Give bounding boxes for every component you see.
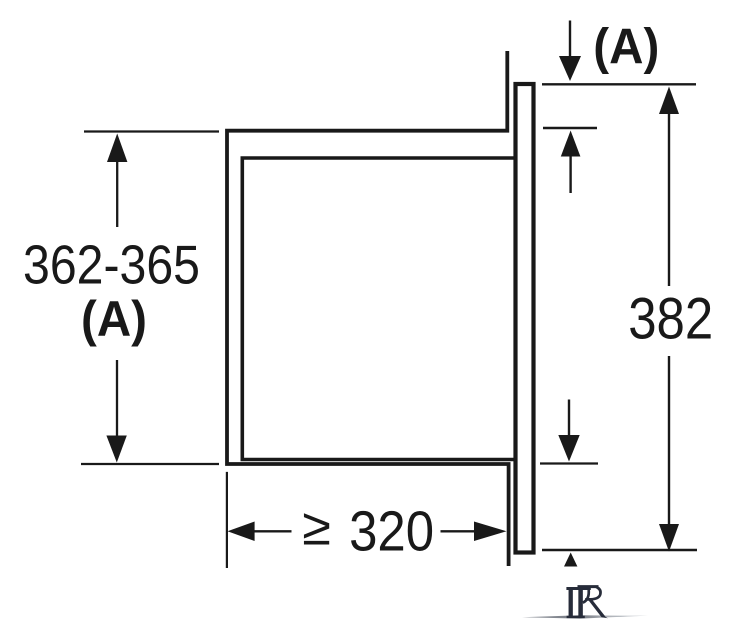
watermark R leg (587, 598, 608, 618)
box-bottom gap arrow down (558, 400, 579, 462)
right dimension 382 arrow up (659, 87, 679, 287)
extension line box-bottom right (540, 462, 598, 464)
left dimension arrow up (107, 134, 127, 228)
watermark letter R (567, 586, 601, 618)
bottom dimension arrow right (441, 522, 507, 542)
niche outline (cabinet cutout) (227, 51, 509, 566)
extension line below left edge (226, 472, 228, 568)
appliance body (inner box) (242, 158, 516, 460)
svg-text:382: 382 (628, 287, 713, 352)
extension line top-left (84, 130, 219, 132)
front frame plate (516, 84, 534, 553)
extension line plate-bottom right (542, 549, 697, 551)
right dimension 382 arrow down (659, 356, 679, 552)
plate-bottom gap arrowhead up (564, 553, 577, 567)
bottom dimension arrow left (228, 522, 292, 542)
svg-text:320: 320 (349, 500, 434, 564)
niche-top gap arrow up (561, 131, 581, 194)
left dimension arrow down (106, 360, 126, 463)
extension line niche-top right (543, 127, 597, 129)
svg-text:(A): (A) (593, 18, 659, 75)
svg-text:(A): (A) (81, 290, 147, 347)
extension line plate-top right (542, 83, 696, 85)
watermark letter P (566, 587, 590, 618)
svg-text:≥: ≥ (302, 499, 331, 557)
top gap arrow down (559, 21, 581, 82)
extension line bottom-left (81, 463, 219, 465)
svg-text:362-365: 362-365 (23, 234, 200, 296)
